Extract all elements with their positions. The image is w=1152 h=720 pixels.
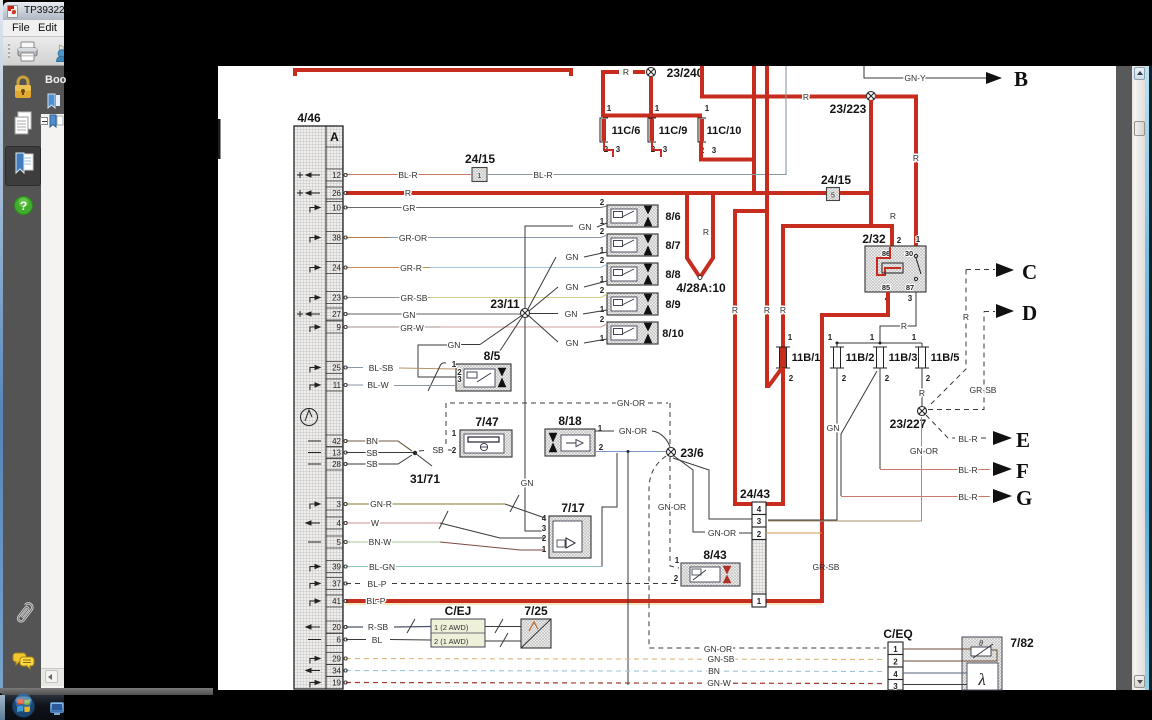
- connector C/EQ: [888, 642, 903, 691]
- svg-text:24: 24: [332, 264, 341, 273]
- svg-text:2: 2: [600, 227, 605, 236]
- svg-text:8/6: 8/6: [665, 211, 680, 223]
- wire BL pin6: [346, 639, 366, 641]
- svg-text:R: R: [901, 321, 907, 331]
- svg-text:GN-OR: GN-OR: [910, 446, 938, 456]
- wire 11B/3 down to F: [879, 368, 881, 469]
- wire GN row pin27 to node 23/11: [346, 313, 520, 315]
- strip pin rows: [326, 169, 343, 677]
- page background: [218, 66, 1116, 690]
- svg-text:34: 34: [332, 667, 341, 676]
- svg-text:R: R: [919, 388, 925, 398]
- svg-text:20: 20: [332, 623, 341, 632]
- svg-text:BL-P: BL-P: [368, 579, 387, 589]
- svg-text:9: 9: [337, 323, 342, 332]
- node 23/6: [667, 448, 676, 457]
- svg-text:2: 2: [600, 198, 605, 207]
- svg-text:1: 1: [757, 597, 762, 606]
- scrollbar thumb: [1134, 121, 1146, 136]
- svg-text:11B/1: 11B/1: [792, 352, 821, 364]
- svg-text:R: R: [623, 67, 629, 77]
- svg-text:8/5: 8/5: [484, 349, 501, 363]
- scrollbar up button: [1134, 67, 1146, 80]
- bookmarks button active: [5, 146, 41, 186]
- svg-text:E: E: [1016, 428, 1030, 452]
- svg-text:8/10: 8/10: [662, 328, 683, 340]
- wire SB pin28: [346, 455, 412, 464]
- svg-text:4: 4: [893, 670, 898, 679]
- svg-text:3: 3: [908, 294, 913, 303]
- svg-text:GN: GN: [827, 423, 840, 433]
- page edge artifact line: [218, 119, 221, 159]
- panel horizontal scrollbar: [41, 668, 64, 686]
- svg-text:1: 1: [607, 104, 612, 113]
- svg-text:11C/10: 11C/10: [707, 125, 742, 137]
- svg-text:GN-Y: GN-Y: [904, 73, 926, 83]
- wire BL-P thick pin41: [346, 599, 824, 603]
- svg-text:G: G: [1016, 486, 1032, 510]
- wire BL-R continues to top right: [487, 66, 786, 175]
- svg-text:2: 2: [757, 530, 762, 539]
- wire 2/32 pin4/85 to BL-P bus: [822, 292, 888, 601]
- comments icon: [12, 650, 36, 674]
- node 23/11: [521, 309, 530, 318]
- svg-text:23/223: 23/223: [830, 102, 867, 116]
- svg-text:1: 1: [870, 333, 875, 342]
- svg-text:D: D: [1022, 301, 1037, 325]
- svg-text:GN: GN: [521, 478, 534, 488]
- svg-text:1: 1: [600, 305, 605, 314]
- window bottom frame: [0, 688, 213, 695]
- svg-text:3: 3: [757, 517, 762, 526]
- node 23/223: [867, 92, 876, 101]
- svg-text:BL-GN: BL-GN: [369, 562, 395, 572]
- pigtail 4/28A:10: [687, 195, 713, 276]
- svg-text:11: 11: [333, 381, 342, 390]
- wire BL-W pin11: [346, 384, 363, 386]
- wire to 2/32 pin2: [890, 224, 894, 247]
- svg-text:GN-SB: GN-SB: [708, 654, 735, 664]
- svg-text:R: R: [913, 153, 919, 163]
- svg-text:BL: BL: [372, 635, 383, 645]
- svg-text:3: 3: [893, 682, 898, 691]
- wire 11B/1 diag: [768, 368, 782, 387]
- svg-text:2: 2: [452, 446, 457, 455]
- dashed GN-OR down from 23/6 to 8/43 pin1: [670, 457, 679, 568]
- fuse 24/15 (2nd): [827, 188, 840, 201]
- svg-text:2: 2: [600, 315, 605, 324]
- svg-text:GR-OR: GR-OR: [399, 233, 427, 243]
- svg-text:38: 38: [332, 234, 341, 243]
- wire R to node 23/240: [603, 72, 645, 117]
- svg-text:7/25: 7/25: [524, 604, 548, 618]
- svg-text:BL-R: BL-R: [958, 465, 977, 475]
- svg-text:3: 3: [616, 145, 621, 154]
- component 8/18: [545, 424, 604, 456]
- svg-text:2: 2: [842, 374, 847, 383]
- svg-text:4: 4: [337, 519, 342, 528]
- svg-text:GN: GN: [565, 309, 578, 319]
- svg-text:29: 29: [332, 655, 341, 664]
- svg-text:3: 3: [337, 500, 342, 509]
- svg-text:1: 1: [916, 235, 921, 244]
- svg-text:7/82: 7/82: [1010, 636, 1034, 650]
- GN vertical to 7/17: [525, 318, 545, 531]
- node 23/227: [918, 407, 927, 416]
- svg-text:1: 1: [478, 173, 482, 180]
- svg-text:BL-R: BL-R: [533, 170, 552, 180]
- component 7/47: [452, 429, 512, 457]
- fuse 11B/3: [870, 333, 918, 383]
- arrow B: [986, 72, 1002, 78]
- GN fan to 8/9: [530, 313, 558, 315]
- svg-text:28: 28: [332, 460, 341, 469]
- svg-text:1: 1: [655, 104, 660, 113]
- svg-text:37: 37: [332, 580, 341, 589]
- svg-text:1: 1: [598, 424, 603, 433]
- svg-text:7/47: 7/47: [475, 415, 499, 429]
- svg-text:2: 2: [926, 374, 931, 383]
- svg-text:GN-OR: GN-OR: [617, 398, 645, 408]
- svg-text:26: 26: [332, 189, 341, 198]
- wire 2/32 pin3/87 down: [880, 292, 916, 343]
- injector 8/7: [600, 227, 681, 256]
- slash GN-R: [510, 495, 519, 512]
- wire GN-Y to B: [864, 66, 990, 78]
- svg-text:GN: GN: [403, 310, 416, 320]
- svg-text:GN-OR: GN-OR: [708, 528, 736, 538]
- relay 2/32: [865, 235, 926, 303]
- svg-text:R: R: [963, 312, 969, 322]
- svg-text:27: 27: [332, 310, 341, 319]
- svg-text:GN: GN: [579, 222, 592, 232]
- pages icon: [13, 110, 33, 138]
- svg-text:SB: SB: [366, 459, 378, 469]
- svg-text:41: 41: [332, 597, 341, 606]
- svg-text:87: 87: [906, 283, 914, 292]
- slash 8/5: [428, 363, 446, 391]
- svg-text:2: 2: [600, 286, 605, 295]
- svg-text:23/240: 23/240: [667, 66, 704, 80]
- svg-text:1: 1: [675, 556, 680, 565]
- wire BN pin42: [346, 441, 412, 451]
- fuse 11B/2: [828, 333, 875, 383]
- svg-text:1: 1: [788, 333, 793, 342]
- wire E from node: [926, 415, 955, 438]
- wire 11C/10 pin2 to R bus: [752, 66, 756, 193]
- bookmarks panel: [41, 66, 64, 114]
- vertical x783 lower to 24/43: [764, 368, 783, 504]
- svg-text:SB: SB: [366, 448, 378, 458]
- svg-text:1: 1: [893, 645, 898, 654]
- dashed GN-OR loop top: [446, 403, 668, 444]
- wire 11B/2 GN to 24/43 pin3: [768, 368, 837, 520]
- aero edge: [1145, 66, 1149, 690]
- node 23/240: [647, 68, 656, 77]
- wire 24/15 down jog: [783, 224, 892, 228]
- wire 11B/3 diag: [841, 371, 877, 496]
- svg-text:?: ?: [20, 199, 27, 213]
- svg-text:11B/5: 11B/5: [931, 352, 960, 364]
- vertical x783 upper: [781, 224, 785, 347]
- svg-text:23/6: 23/6: [680, 446, 704, 460]
- wire F: [880, 469, 990, 471]
- svg-text:W: W: [371, 518, 379, 528]
- svg-text:C: C: [1022, 260, 1037, 284]
- svg-text:BL-W: BL-W: [367, 380, 388, 390]
- svg-text:85: 85: [882, 283, 890, 292]
- svg-text:BL-P: BL-P: [367, 596, 386, 606]
- arrow C dashed: [928, 270, 995, 408]
- svg-text:BN: BN: [708, 666, 720, 676]
- arrow D dashed: [984, 311, 995, 313]
- paperclip icon: [12, 597, 36, 629]
- wire BL-SB pin25: [346, 367, 363, 369]
- svg-text:GR-R: GR-R: [400, 263, 422, 273]
- svg-text:5: 5: [831, 193, 835, 200]
- long vertical R bus x767: [765, 66, 769, 388]
- GN fan to 8/5: [461, 316, 521, 345]
- svg-text:8/8: 8/8: [665, 269, 680, 281]
- svg-text:31/71: 31/71: [410, 472, 440, 486]
- connector 11C/9: [648, 104, 687, 157]
- svg-text:23/11: 23/11: [490, 297, 520, 311]
- wire 11B pins bus: [837, 342, 922, 344]
- svg-text:GN: GN: [448, 340, 461, 350]
- dashed SB to 7/47: [419, 450, 428, 451]
- component 8/43: [674, 556, 740, 586]
- dashed GN-SB row pin29: [346, 659, 886, 660]
- svg-text:2: 2: [885, 374, 890, 383]
- wire 8/18 pin1 GN-OR to 23/6: [595, 430, 614, 432]
- GN fan stub: [496, 317, 522, 357]
- slash W: [439, 511, 448, 529]
- wire 8/18 pin2 blue: [595, 451, 666, 453]
- svg-text:R: R: [780, 305, 786, 315]
- svg-text:24/15: 24/15: [821, 173, 851, 187]
- taskbar app icon: [50, 702, 64, 713]
- svg-text:R: R: [732, 305, 738, 315]
- wire GR-R row pin24: [346, 267, 430, 269]
- svg-text:3: 3: [457, 375, 462, 384]
- help icon: [14, 196, 33, 215]
- injector 8/9: [600, 286, 681, 315]
- wire G: [841, 496, 990, 498]
- svg-text:30: 30: [905, 249, 913, 258]
- svg-text:R: R: [703, 227, 709, 237]
- svg-text:GN: GN: [566, 338, 579, 348]
- svg-text:1: 1: [452, 360, 457, 369]
- svg-text:2: 2: [674, 574, 679, 583]
- circle symbol on strip: [301, 409, 318, 426]
- start orb: [8, 693, 39, 719]
- svg-text:3: 3: [712, 146, 717, 155]
- svg-text:1: 1: [705, 104, 710, 113]
- svg-text:BN-W: BN-W: [369, 537, 392, 547]
- svg-text:42: 42: [332, 437, 341, 446]
- wire 11C pins bus: [603, 114, 702, 118]
- wire BL-R row pin12: [346, 174, 471, 176]
- wire BN-W pin5: [346, 541, 440, 543]
- svg-text:F: F: [1016, 459, 1029, 483]
- svg-text:GR-SB: GR-SB: [970, 385, 997, 395]
- svg-text:λ: λ: [977, 670, 985, 689]
- svg-text:BN: BN: [366, 436, 378, 446]
- svg-text:24/43: 24/43: [740, 487, 770, 501]
- fuse 11B/5: [912, 333, 960, 383]
- GN fan to 8/10: [529, 316, 558, 342]
- wire W pin4: [346, 522, 440, 524]
- svg-text:11B/3: 11B/3: [889, 352, 918, 364]
- svg-text:BL-SB: BL-SB: [369, 363, 394, 373]
- svg-text:GN-OR: GN-OR: [658, 502, 686, 512]
- branch vertical x735: [737, 209, 767, 213]
- wires C/EJ to 7/25: [485, 626, 521, 628]
- wire R feed to node 23/223 from page top: [702, 66, 866, 97]
- wire GN-R pin3: [346, 503, 505, 505]
- wire 23/6 to 24/43 pin3 vertical: [673, 458, 752, 519]
- svg-text:2: 2: [789, 374, 794, 383]
- dashed GN-OR down to C/EQ: [649, 456, 886, 648]
- svg-text:25: 25: [332, 364, 341, 373]
- svg-text:GR-SB: GR-SB: [813, 562, 840, 572]
- svg-text:8/18: 8/18: [558, 414, 582, 428]
- svg-text:11C/9: 11C/9: [659, 125, 688, 137]
- svg-text:10: 10: [332, 204, 341, 213]
- injector 8/8: [600, 256, 681, 285]
- svg-text:1: 1: [600, 334, 605, 343]
- wire GR-W row pin9: [346, 326, 440, 328]
- svg-text:C/EJ: C/EJ: [445, 604, 472, 618]
- GN fan to 8/8: [529, 287, 558, 311]
- injector 8/6: [600, 198, 681, 227]
- wire R-SB pin20: [346, 626, 363, 628]
- wire GR-OR row pin38: [346, 237, 388, 239]
- dashed GN-W row pin19: [346, 683, 886, 684]
- svg-text:2: 2: [893, 658, 898, 667]
- scrollbar down button: [1134, 675, 1146, 688]
- connector strip 4/46: [294, 111, 343, 689]
- sidebar: [3, 66, 41, 688]
- relay 8/5: [452, 360, 511, 391]
- top red bus H1: [295, 70, 571, 76]
- svg-text:BL-R: BL-R: [398, 170, 417, 180]
- wire R main bus pin26: [346, 191, 871, 195]
- svg-text:4: 4: [757, 505, 762, 514]
- svg-text:BL-R: BL-R: [958, 492, 977, 502]
- svg-text:GR: GR: [403, 203, 416, 213]
- printer icon: [16, 40, 40, 64]
- svg-text:3: 3: [542, 524, 547, 533]
- svg-text:4/28A:10: 4/28A:10: [676, 281, 726, 295]
- fuse 24/15: [472, 168, 487, 182]
- component 7/17: [542, 514, 591, 558]
- svg-text:GR-SB: GR-SB: [401, 293, 428, 303]
- svg-text:19: 19: [332, 679, 341, 688]
- svg-text:BL-R: BL-R: [958, 434, 977, 444]
- wire 23/6 to 24/43 pin2: [674, 456, 705, 532]
- svg-text:R-SB: R-SB: [368, 622, 389, 632]
- svg-text:2 (1 AWD): 2 (1 AWD): [434, 637, 469, 646]
- svg-text:39: 39: [332, 563, 341, 572]
- dashed BN row pin34: [346, 671, 886, 672]
- svg-text:4/46: 4/46: [297, 111, 321, 125]
- svg-text:1: 1: [452, 429, 457, 438]
- fuse 11B/1: [776, 333, 820, 383]
- svg-text:2/32: 2/32: [862, 232, 886, 246]
- component C/EJ: [431, 619, 485, 647]
- svg-text:2: 2: [897, 236, 902, 245]
- svg-text:C/EQ: C/EQ: [883, 627, 912, 641]
- svg-text:GN-OR: GN-OR: [704, 644, 732, 654]
- svg-text:B: B: [1014, 67, 1028, 91]
- partial person icon: [55, 41, 64, 65]
- svg-text:8/43: 8/43: [703, 548, 727, 562]
- connector 11C/10: [698, 104, 741, 155]
- svg-text:GN: GN: [566, 282, 579, 292]
- svg-text:R: R: [890, 211, 896, 221]
- svg-text:GN-OR: GN-OR: [619, 426, 647, 436]
- wire BL-GN pin39: [346, 566, 602, 568]
- wire node to 2/32 pin1: [875, 97, 916, 248]
- svg-text:R: R: [405, 188, 411, 198]
- connector 24/43: [752, 502, 766, 607]
- connector 11C/6: [600, 104, 640, 157]
- wire 11B/5 to node 23/227: [921, 368, 923, 406]
- wires C/EQ to 7/82: [903, 648, 971, 650]
- injector 8/10: [600, 315, 684, 344]
- GN fan to 8/7: [528, 257, 556, 309]
- svg-text:A: A: [330, 130, 339, 144]
- svg-text:86: 86: [882, 249, 890, 258]
- svg-text:GR-W: GR-W: [400, 323, 424, 333]
- svg-text:2: 2: [599, 443, 604, 452]
- svg-text:6: 6: [337, 636, 342, 645]
- GN fan to 8/6: [525, 226, 573, 308]
- svg-text:13: 13: [332, 449, 341, 458]
- wire GN-OR orange from 24/43 pin3 up to node: [768, 417, 922, 521]
- svg-text:GN: GN: [566, 252, 579, 262]
- svg-text:4: 4: [542, 514, 547, 523]
- junction 31/71: [413, 451, 417, 455]
- component 7/82 lambda sond: [962, 637, 1002, 690]
- wire GR-SB row pin23: [346, 297, 430, 299]
- svg-text:23: 23: [332, 294, 341, 303]
- svg-text:1 (2 AWD): 1 (2 AWD): [434, 623, 469, 632]
- svg-text:8/9: 8/9: [665, 299, 680, 311]
- svg-text:R: R: [803, 92, 809, 102]
- svg-text:1: 1: [828, 333, 833, 342]
- svg-text:11B/2: 11B/2: [846, 352, 875, 364]
- component 7/25: [521, 619, 551, 648]
- svg-text:11C/6: 11C/6: [612, 125, 641, 137]
- svg-text:SB: SB: [432, 445, 444, 455]
- wire SB pin13: [346, 452, 413, 454]
- svg-text:R: R: [764, 305, 770, 315]
- svg-text:5: 5: [337, 538, 342, 547]
- svg-text:1: 1: [912, 333, 917, 342]
- svg-text:12: 12: [332, 171, 341, 180]
- wire GR row pin10: [346, 206, 607, 208]
- wire vertical 11C/9 feed from node: [649, 77, 653, 119]
- wire orange right of pin2: [766, 532, 822, 534]
- svg-text:3: 3: [663, 145, 668, 154]
- wire BL-P pin37 dashed: [346, 583, 363, 585]
- lock icon: [13, 74, 33, 100]
- svg-text:GN-R: GN-R: [370, 499, 392, 509]
- svg-text:7/17: 7/17: [561, 501, 585, 515]
- dashed GR-SB D path: [928, 312, 984, 410]
